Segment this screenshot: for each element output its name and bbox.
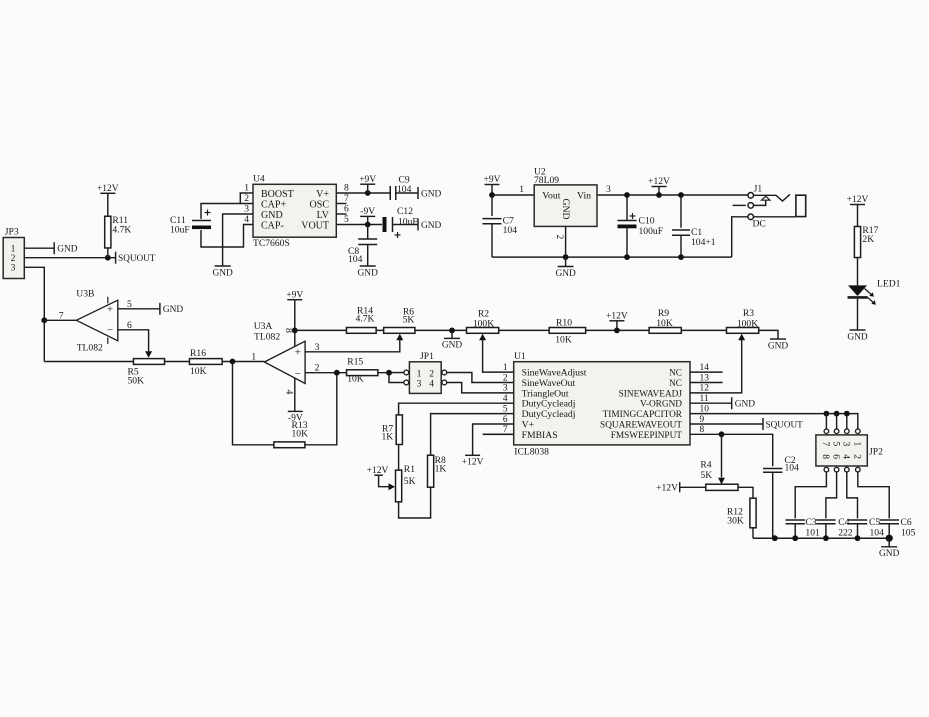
wire timing caps to bottom rail <box>795 524 889 538</box>
J1 jack center pin <box>754 196 770 205</box>
op-amp U3A TL082 triangle <box>254 321 305 384</box>
wire +9V rail to U2 pin1 <box>492 184 534 195</box>
svg-text:ICL8038: ICL8038 <box>514 447 549 458</box>
wire U3B junction down to rail <box>43 320 45 361</box>
svg-text:+9V: +9V <box>484 175 501 185</box>
wire U1 pin13 NC stub <box>690 382 723 384</box>
capacitor C6 105 <box>880 517 916 539</box>
power +9V above U3A <box>286 290 303 346</box>
wire U3A pin2 to R15 <box>305 363 346 374</box>
node R16 R13 junction <box>230 359 236 365</box>
resistor R10 10K <box>549 318 586 346</box>
wire U1 pin10 timing rail <box>690 414 858 429</box>
svg-text:+9V: +9V <box>286 290 303 300</box>
JP3 pin numbers <box>11 244 16 274</box>
svg-text:2: 2 <box>315 363 320 374</box>
svg-text:5K: 5K <box>404 476 416 487</box>
JP2 top circles <box>824 429 860 434</box>
svg-text:7: 7 <box>59 311 64 322</box>
svg-text:NC: NC <box>669 369 682 379</box>
capacitor C11 10uF electrolytic <box>170 210 211 236</box>
resistor R7 1K <box>381 415 402 445</box>
wire JP3 pin2 SQUOUT <box>24 257 115 259</box>
svg-text:C5: C5 <box>869 517 880 528</box>
node U2 pin2 rail junction <box>563 254 569 260</box>
node R15 JP1 junction <box>386 370 392 376</box>
svg-text:+12V: +12V <box>606 312 628 322</box>
svg-text:7: 7 <box>820 442 830 447</box>
svg-text:-9V: -9V <box>288 414 303 424</box>
wire JP1 pin2 to U1 pin2 <box>447 373 514 383</box>
svg-text:−: − <box>107 325 113 337</box>
node C4 rail <box>823 535 829 541</box>
svg-text:100uF: 100uF <box>639 226 664 237</box>
ground below LED1 <box>847 330 868 342</box>
svg-text:100K: 100K <box>737 319 758 330</box>
svg-text:DutyCycleadj: DutyCycleadj <box>522 399 576 410</box>
JP1 pin numbers <box>417 368 435 389</box>
power +12V on U2 output rail <box>648 177 670 195</box>
svg-text:78L09: 78L09 <box>534 175 559 186</box>
svg-text:TL082: TL082 <box>77 343 103 354</box>
svg-text:Vin: Vin <box>577 190 591 201</box>
wire U1 pin7 FMBIAS stub <box>483 433 514 435</box>
svg-text:Vout: Vout <box>542 191 560 202</box>
svg-text:GND: GND <box>442 341 463 351</box>
svg-text:5: 5 <box>344 214 349 225</box>
ground U4 pin3 <box>212 266 233 278</box>
svg-text:5K: 5K <box>403 315 415 326</box>
capacitor C5 104 <box>848 517 884 539</box>
wire U4 pin7 OSC stub <box>336 203 346 205</box>
U3A pin8 label <box>283 328 294 333</box>
capacitor C8 104 <box>348 239 377 265</box>
wire U1 pin6 to +12V <box>473 424 514 455</box>
connector JP1 body <box>409 351 441 393</box>
ground below top rail <box>442 330 463 350</box>
potentiometer R2 100K <box>467 309 499 334</box>
svg-text:+12V: +12V <box>656 482 678 493</box>
svg-text:3: 3 <box>417 379 422 390</box>
IC U2 78L09 body <box>534 167 597 227</box>
JP2 pin numbers <box>820 442 861 460</box>
ground flag right of C9 <box>418 187 442 199</box>
flag SQUOUT at JP3 pin2 <box>116 252 156 264</box>
svg-text:TL082: TL082 <box>254 332 280 343</box>
svg-text:BOOST: BOOST <box>261 189 294 200</box>
wire U1 pin5 to R8 <box>431 414 514 456</box>
svg-text:100K: 100K <box>473 319 494 330</box>
svg-text:-9V: -9V <box>360 207 375 217</box>
svg-text:GND: GND <box>358 268 379 278</box>
node U3A pin2 R13 junction <box>334 370 340 376</box>
resistor R13 10K <box>274 420 308 448</box>
IC U1 ICL8038 body <box>514 351 690 458</box>
wire U1 pin11 to ground <box>690 402 732 404</box>
resistor R9 10K <box>649 308 681 333</box>
wire U1 pin8 to C2 <box>690 434 773 466</box>
svg-text:104: 104 <box>870 528 885 539</box>
svg-text:LED1: LED1 <box>877 279 901 290</box>
svg-text:1K: 1K <box>381 432 393 443</box>
svg-text:4: 4 <box>841 454 851 459</box>
svg-text:10K: 10K <box>656 318 673 329</box>
wire C2 to bottom rail <box>772 472 774 538</box>
U4 pin names <box>261 189 330 232</box>
node C6 rail <box>886 535 893 542</box>
svg-text:JP3: JP3 <box>5 227 19 238</box>
potentiometer R6 5K <box>384 307 415 334</box>
svg-text:1: 1 <box>251 352 256 363</box>
node C10 top <box>624 192 630 198</box>
connector J1 pin circles <box>748 184 766 230</box>
wire U3A pin3 to R6 wiper <box>305 334 403 353</box>
power +12V at R4 <box>656 482 706 493</box>
svg-text:U3B: U3B <box>76 289 94 300</box>
svg-text:JP2: JP2 <box>869 447 883 458</box>
node U1 pin8 R4 junction <box>719 431 725 437</box>
svg-text:4: 4 <box>244 214 249 225</box>
wire U1 pin14 NC stub <box>690 371 723 373</box>
wire top rail <box>295 329 727 331</box>
U4 pin numbers right <box>344 183 349 225</box>
svg-text:2K: 2K <box>862 234 874 245</box>
svg-text:8: 8 <box>344 183 349 194</box>
U2 pin names <box>542 190 591 219</box>
potentiometer R3 100K <box>727 308 759 333</box>
svg-text:+12V: +12V <box>97 184 119 194</box>
power +12V below U1 pin6 <box>462 455 484 467</box>
power +9V above C7 <box>484 175 501 195</box>
svg-text:4: 4 <box>283 390 294 395</box>
resistor R8 1K <box>428 455 447 487</box>
wire R17 to LED1 <box>857 258 859 286</box>
svg-text:SineWaveAdjust: SineWaveAdjust <box>522 368 587 379</box>
svg-text:+12V: +12V <box>847 195 869 205</box>
node V+ +9V junction <box>365 190 371 196</box>
svg-text:1: 1 <box>852 442 862 447</box>
wire U3B pin7 output <box>44 311 76 322</box>
node JP2 riser 2 <box>834 411 840 417</box>
resistor R16 10K <box>189 348 222 377</box>
resistor R11 4.7K <box>105 215 132 248</box>
svg-text:2: 2 <box>503 373 508 383</box>
resistor R14 4.7K <box>346 306 376 334</box>
svg-text:R15: R15 <box>347 357 363 368</box>
wire R12 to bottom rail <box>752 528 754 538</box>
svg-text:7: 7 <box>344 193 349 204</box>
wire U2 pin3 Vin to J1 <box>597 184 748 195</box>
svg-text:FMBIAS: FMBIAS <box>522 430 558 441</box>
svg-text:1: 1 <box>244 183 249 194</box>
node C1 bottom <box>678 254 684 260</box>
svg-text:R10: R10 <box>556 318 572 329</box>
wire U1 pin9 to SQUOUT <box>690 423 763 425</box>
potentiometer R5 50K <box>128 359 165 387</box>
svg-text:R1: R1 <box>404 464 415 475</box>
node +12V top rail junction <box>614 328 620 334</box>
resistor R15 10K <box>347 357 378 385</box>
node +9V C7 junction <box>489 192 495 198</box>
J1 switch stub <box>733 204 746 206</box>
wire U4 pin8 V+ to C9 <box>336 192 390 194</box>
svg-text:GND: GND <box>163 305 184 315</box>
wire C8 to ground <box>367 245 369 267</box>
svg-text:GND: GND <box>847 332 868 342</box>
svg-text:+9V: +9V <box>359 175 376 185</box>
wire R16 to U3A input <box>222 352 264 363</box>
power -9V at U4 pin5 <box>360 207 375 224</box>
svg-text:6: 6 <box>830 454 840 459</box>
svg-text:U3A: U3A <box>254 321 273 332</box>
svg-text:CAP-: CAP- <box>261 220 284 231</box>
ground below C8 <box>358 266 379 278</box>
svg-text:CAP+: CAP+ <box>261 199 286 210</box>
U1 pin names <box>522 368 683 441</box>
svg-text:GND: GND <box>768 341 789 351</box>
ground below U2 pin2 <box>555 257 576 279</box>
svg-text:10K: 10K <box>292 429 309 440</box>
svg-text:5K: 5K <box>700 470 712 481</box>
connector JP2 body <box>816 435 883 466</box>
wire U3B pin5 to ground <box>118 299 160 310</box>
wire U4 pin1 BOOST to CAP+ net <box>240 193 253 204</box>
svg-text:10K: 10K <box>555 335 572 346</box>
wire C12 to ground <box>393 224 419 226</box>
wire R7 to R1 <box>398 445 400 471</box>
svg-text:+12V: +12V <box>462 458 484 468</box>
wire ground rail up to J1 sleeve <box>732 217 749 257</box>
svg-text:3: 3 <box>606 184 611 195</box>
svg-text:OSC: OSC <box>310 199 330 210</box>
svg-text:104+1: 104+1 <box>691 237 716 248</box>
flag SQUOUT at U1 pin9 <box>763 418 803 430</box>
node JP2 riser 3 <box>844 411 850 417</box>
svg-text:C12: C12 <box>397 206 413 217</box>
svg-text:6: 6 <box>127 320 132 331</box>
svg-text:8: 8 <box>820 454 830 459</box>
svg-text:50K: 50K <box>128 376 145 387</box>
wire R13 up to U3A pin2 net <box>305 373 337 445</box>
svg-text:1K: 1K <box>435 464 447 475</box>
wire JP2 pin3 to C5 <box>847 472 858 519</box>
wire U4 pin5 VOUT to C12 <box>336 224 382 226</box>
svg-text:SQUOUT: SQUOUT <box>766 419 804 429</box>
svg-text:TriangleOut: TriangleOut <box>522 388 569 399</box>
svg-text:104: 104 <box>785 463 800 474</box>
potentiometer R1 5K <box>389 464 416 502</box>
svg-text:GND: GND <box>879 549 900 559</box>
svg-text:GND: GND <box>421 189 442 199</box>
wire junction to JP1 pin3 <box>389 373 404 383</box>
svg-text:10K: 10K <box>190 366 207 377</box>
svg-text:FMSWEEPINPUT: FMSWEEPINPUT <box>611 431 683 441</box>
svg-text:10uF: 10uF <box>170 225 190 236</box>
J1 jack tip contact <box>753 194 790 201</box>
wire U4 pin4 CAP- to C11 bottom <box>201 225 253 248</box>
svg-text:GND: GND <box>57 245 78 255</box>
wire R1 bottom to R8 bottom <box>399 487 431 518</box>
svg-text:GND: GND <box>735 400 756 410</box>
power +12V on top rail <box>606 312 628 331</box>
wire U2 pin2 GND down <box>554 226 566 257</box>
resistor R17 2K <box>854 225 878 258</box>
svg-text:GND: GND <box>421 221 442 231</box>
svg-text:1: 1 <box>519 184 524 195</box>
wire U1 pin4 to R7 <box>399 403 514 415</box>
wire bottom rail <box>753 537 889 539</box>
capacitor C2 104 <box>763 455 799 474</box>
svg-text:VOUT: VOUT <box>301 220 329 231</box>
svg-text:10K: 10K <box>347 374 364 385</box>
ground right of R3 <box>768 339 789 351</box>
wire JP3 pin1 to ground <box>24 247 54 249</box>
svg-text:30K: 30K <box>727 516 744 527</box>
svg-text:3: 3 <box>503 384 508 394</box>
svg-text:TC7660S: TC7660S <box>253 238 290 249</box>
svg-text:104: 104 <box>503 225 518 236</box>
node VOUT -9V junction <box>365 222 371 228</box>
svg-text:2: 2 <box>852 454 862 459</box>
ground below bottom rail <box>879 538 900 559</box>
svg-text:SQUAREWAVEOUT: SQUAREWAVEOUT <box>600 420 682 430</box>
wire JP3 pin3 down to U3B <box>24 267 44 320</box>
svg-text:R3: R3 <box>743 308 754 319</box>
wire junction down to R4 wiper <box>718 434 725 484</box>
svg-text:SINEWAVEADJ: SINEWAVEADJ <box>619 389 683 399</box>
resistor R12 30K <box>727 498 756 528</box>
U3A pin4 label <box>283 390 294 395</box>
svg-text:GND: GND <box>560 199 571 220</box>
svg-text:12: 12 <box>700 384 710 394</box>
wire JP2 pin1 to C6 <box>858 472 889 519</box>
svg-text:5: 5 <box>127 299 132 310</box>
capacitor C4 222 <box>816 517 853 539</box>
J1 jack body <box>796 195 806 216</box>
node JP2 riser 1 <box>824 411 830 417</box>
node C10 bottom <box>624 254 630 260</box>
svg-text:10uF: 10uF <box>398 217 418 228</box>
IC U4 TC7660S body <box>253 174 336 250</box>
svg-text:J1: J1 <box>754 184 763 195</box>
svg-text:9: 9 <box>700 415 705 425</box>
svg-text:GND: GND <box>555 269 576 279</box>
wire mid rail left <box>44 361 133 363</box>
wire U4 pin2 CAP+ to C11 top <box>201 204 253 220</box>
svg-text:C4: C4 <box>838 517 849 528</box>
wire U1 pin12 to R3 wiper <box>690 334 745 393</box>
J1 jack sleeve line <box>754 216 796 218</box>
svg-text:101: 101 <box>805 528 820 539</box>
svg-text:+12V: +12V <box>648 177 670 187</box>
svg-text:V+: V+ <box>316 189 329 200</box>
svg-text:C6: C6 <box>901 517 912 528</box>
node +12V rail junction <box>656 192 662 198</box>
svg-text:−: − <box>295 368 301 380</box>
svg-text:C3: C3 <box>805 517 816 528</box>
wire JP2 risers <box>826 414 846 429</box>
svg-text:2: 2 <box>244 193 249 204</box>
wire U2 bottom ground rail <box>492 256 732 258</box>
svg-text:V-ORGND: V-ORGND <box>640 400 682 410</box>
svg-text:3: 3 <box>841 442 851 447</box>
wire R4 to R12 <box>738 487 753 498</box>
wire U3A pin4 to -9V <box>294 378 296 411</box>
LED LED1 <box>848 279 901 305</box>
svg-text:R4: R4 <box>700 459 711 470</box>
wire JP2 pin5 to C4 <box>826 472 837 519</box>
connector JP3 body <box>3 227 24 279</box>
wire U3B pin6 to R5 wiper <box>118 320 152 358</box>
svg-text:JP1: JP1 <box>420 351 434 362</box>
node C3 rail <box>792 535 798 541</box>
JP2 bottom circles <box>824 467 860 472</box>
power +9V at U4 pin8 <box>359 175 376 193</box>
svg-text:+: + <box>295 346 301 358</box>
capacitor C10 100uF electrolytic <box>618 195 664 257</box>
capacitor C12 10uF electrolytic <box>383 206 418 238</box>
wire U4 pin6 LV stub <box>336 213 346 215</box>
svg-text:GND: GND <box>261 210 283 221</box>
svg-text:U1: U1 <box>514 351 526 362</box>
svg-text:3: 3 <box>244 204 249 215</box>
power -9V below U3A <box>288 411 303 423</box>
ground flag U1 pin11 <box>732 397 756 409</box>
svg-text:4: 4 <box>429 379 434 390</box>
svg-text:4.7K: 4.7K <box>356 314 375 325</box>
svg-text:LV: LV <box>317 210 330 221</box>
wire U4 pin3 GND down <box>223 214 253 266</box>
svg-text:105: 105 <box>901 528 916 539</box>
wire junction down to R13 <box>233 362 274 445</box>
node U3B output junction <box>41 317 47 323</box>
U1 pin numbers <box>503 363 709 435</box>
svg-text:TIMINGCAPCITOR: TIMINGCAPCITOR <box>603 410 683 420</box>
svg-text:GND: GND <box>212 268 233 278</box>
svg-text:NC: NC <box>669 379 682 389</box>
node top rail ground junction <box>449 328 455 334</box>
wire C9 to ground <box>396 192 418 194</box>
JP1 pin circles <box>404 370 447 385</box>
wire U1 pin1 to R2 wiper <box>479 334 514 372</box>
node C2 rail <box>772 535 778 541</box>
svg-text:+: + <box>107 303 113 315</box>
svg-text:R16: R16 <box>190 348 206 359</box>
node C1 top <box>678 192 684 198</box>
ground flag right of C12 <box>418 219 442 231</box>
svg-text:SQUOUT: SQUOUT <box>118 253 156 263</box>
svg-text:104: 104 <box>348 254 363 265</box>
wire VOUT junction to C8 <box>367 225 369 240</box>
wire JP2 pin7 to C3 <box>795 472 826 519</box>
svg-text:DC: DC <box>753 219 766 230</box>
wire R11 to junction <box>107 248 109 258</box>
node R11 bottom junction <box>105 255 111 261</box>
svg-text:V+: V+ <box>522 419 534 430</box>
svg-text:U4: U4 <box>253 174 265 185</box>
capacitor C9 104 <box>390 175 411 201</box>
power +12V above R17 <box>847 195 869 226</box>
wire R15 to JP1 pin1 <box>378 372 404 374</box>
svg-text:2: 2 <box>554 235 564 240</box>
svg-text:6: 6 <box>503 415 508 425</box>
capacitor C7 104 <box>483 195 518 257</box>
svg-text:4.7K: 4.7K <box>112 225 131 236</box>
power +12V above R11 <box>97 184 119 216</box>
ground flag U3B pin5 <box>160 303 184 315</box>
power +12V at R1 wiper <box>367 466 390 487</box>
wire LED1 to ground <box>857 299 859 330</box>
